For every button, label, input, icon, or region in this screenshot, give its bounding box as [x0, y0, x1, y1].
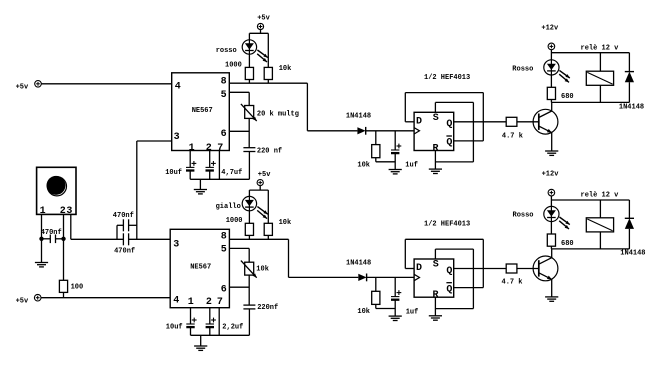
svg-text:100: 100: [71, 283, 84, 291]
resistor 10k (FF2 input): [357, 291, 380, 316]
wire clamp diode bottom (channel 1): [628, 82, 630, 102]
wire +12v to LED Rosso: [550, 50, 552, 60]
+5v power circle (IC1): [35, 81, 42, 88]
svg-text:10k: 10k: [256, 266, 269, 274]
wire IC1 pin 5 to potentiometer: [229, 92, 249, 105]
+12v power circle (channel 1): [548, 43, 555, 50]
wire mic pin 2 to R100: [63, 214, 65, 280]
svg-text:Q: Q: [446, 138, 452, 149]
svg-text:680: 680: [561, 93, 574, 101]
svg-text:10uf: 10uf: [165, 169, 182, 177]
svg-text:1uf: 1uf: [405, 162, 418, 170]
label giallo: [216, 203, 241, 211]
wire 470nf upper left stub: [117, 225, 123, 239]
wire IC2 pin 7 to ground rail: [218, 308, 220, 336]
svg-text:220 nf: 220 nf: [257, 147, 282, 155]
wire R100 to +5v rail: [63, 292, 65, 297]
svg-text:10uf: 10uf: [166, 324, 183, 332]
resistor 4.7 k (Q2 base): [502, 264, 523, 286]
svg-text:Q: Q: [446, 284, 452, 295]
resistor 680 (channel 1): [547, 87, 573, 101]
wire 1uf top lead (FF2): [394, 277, 396, 296]
wire collector node rail (channel 1): [551, 101, 629, 103]
wire R1000 to pin8 rail: [248, 80, 250, 84]
svg-text:rosso: rosso: [216, 47, 237, 55]
svg-text:4: 4: [175, 82, 181, 93]
svg-text:1: 1: [188, 297, 194, 308]
wire base resistor to Q1: [517, 121, 539, 123]
capacitor 470nf (parallel upper): [113, 212, 134, 231]
wire relay bottom stub (channel 2): [599, 232, 601, 249]
ground (IC2): [194, 346, 207, 350]
wire pot to IC1 pin 6 and 220nf: [248, 118, 250, 147]
wire relay top stub (channel 1): [599, 53, 601, 71]
wire +12v top rail (channel 1): [551, 52, 629, 54]
svg-text:1uf: 1uf: [406, 308, 419, 316]
wire FF1 D feedback loop: [405, 93, 483, 141]
wire 1uf bottom lead (FF1): [394, 153, 396, 169]
wire +12v top rail (channel 2): [551, 199, 629, 201]
junction mic pin1/470nf/ground: [39, 237, 43, 241]
wire LED rosso to R 1000: [248, 54, 250, 67]
svg-text:1N4148: 1N4148: [346, 260, 371, 268]
capacitor 470nf (series lower): [114, 233, 135, 255]
svg-text:D: D: [416, 263, 422, 274]
wire IC1 pin 3 input: [137, 141, 172, 239]
wire collector node rail (channel 2): [551, 248, 629, 250]
svg-text:680: 680: [561, 240, 574, 248]
wire FF2 Qbar output: [454, 287, 484, 289]
wire IC1 pin 7 to ground rail: [218, 151, 220, 180]
+5v supply label (bottom rail): [16, 297, 29, 305]
svg-text:1N4148: 1N4148: [620, 250, 645, 258]
LED rosso: [242, 40, 268, 62]
svg-text:470nf: 470nf: [41, 229, 62, 237]
svg-text:Rosso: Rosso: [513, 212, 534, 220]
wire ground stem (IC1): [199, 179, 201, 189]
resistor 680 (channel 2): [547, 234, 573, 248]
svg-text:3: 3: [174, 132, 180, 143]
svg-text:D: D: [416, 117, 422, 128]
wire junction to R10k (FF1): [375, 131, 377, 145]
svg-text:NE567: NE567: [192, 107, 213, 115]
wire relay bottom stub (channel 1): [599, 85, 601, 102]
IC U1 NE567 (top tone decoder): [172, 73, 230, 154]
wire IC2 pin 1 lead: [190, 308, 192, 336]
wire IC2 pin 5 to potentiometer: [229, 248, 249, 262]
+5v supply symbol (IC1 pin 4): [16, 83, 29, 91]
svg-text:10k: 10k: [279, 219, 292, 227]
wire IC2 ground rail: [191, 334, 250, 336]
svg-text:4: 4: [173, 296, 179, 307]
wire LED to R680 (channel 2): [550, 222, 552, 234]
capacitor 10uf (IC1 pin 1): [165, 161, 196, 177]
resistor 4.7 k (Q1 base): [502, 117, 523, 140]
capacitor 2,2uf (IC2 pin 2): [206, 318, 244, 332]
svg-text:S: S: [433, 113, 439, 124]
svg-text:1N4148: 1N4148: [619, 104, 644, 112]
capacitor 1uf (FF1): [391, 144, 418, 170]
diode 1N4148 relay clamp (channel 2): [620, 218, 645, 257]
wire IC1 pin 6: [229, 130, 249, 132]
wire +5v rail to IC2 pin 4: [41, 297, 170, 299]
capacitor 470nf (mic): [41, 229, 62, 243]
wire +5v to IC1 pin 4: [41, 83, 171, 85]
wire mic pin 1: [41, 214, 43, 238]
svg-text:4.7 k: 4.7 k: [502, 278, 523, 286]
svg-text:Q: Q: [446, 266, 452, 277]
wire diode to FF2 clock: [367, 276, 415, 278]
svg-text:4,7uf: 4,7uf: [221, 169, 242, 177]
LED Rosso (channel 2): [544, 206, 570, 229]
wire clamp diode top (channel 2): [628, 200, 630, 218]
flip-flop U2A 1/2 HEF4013: [414, 74, 470, 154]
wire R1000b to pin8 rail: [248, 235, 250, 239]
ground (FF1 input cap): [389, 170, 402, 174]
+12v supply label (channel 2): [542, 171, 560, 179]
svg-text:1000: 1000: [226, 217, 243, 225]
svg-text:8: 8: [221, 76, 227, 87]
+5v power circle (giallo branch): [257, 180, 263, 186]
ground (Q2 emitter): [545, 297, 558, 301]
diode 1N4148 relay clamp (channel 1): [619, 72, 644, 112]
diode 1N4148 (channel 2): [346, 260, 371, 282]
wire +12v to LED Rosso (channel 2): [550, 196, 552, 207]
wire R680 to collector node (channel 2): [550, 246, 552, 249]
resistor 100: [59, 280, 83, 292]
wire mic pin 3 signal: [71, 214, 124, 239]
svg-text:20 k multg: 20 k multg: [257, 110, 299, 118]
wire 1uf bottom lead (FF2): [394, 300, 396, 316]
svg-text:2: 2: [60, 206, 66, 217]
wire IC1 pin 8 output net: [229, 83, 307, 131]
wire diode to FF1 clock: [366, 130, 414, 132]
transistor Q1: [533, 109, 558, 134]
svg-text:3: 3: [173, 239, 179, 250]
wire 220nf to ground rail: [248, 152, 250, 180]
relay rele 12 v (channel 2): [581, 191, 620, 232]
svg-text:1/2 HEF4013: 1/2 HEF4013: [424, 74, 470, 82]
svg-text:+5v: +5v: [257, 15, 270, 23]
svg-text:S: S: [433, 260, 439, 271]
LED Rosso (channel 1): [544, 60, 570, 83]
+5v power circle (rosso branch): [257, 23, 263, 29]
wire FF1 R to ground: [434, 151, 436, 169]
wire R10k bottom to cap ground (FF2): [376, 304, 395, 308]
wire LED to R680 (channel 1): [550, 75, 552, 87]
+12v supply label (channel 1): [541, 25, 559, 33]
wire signal to IC2 pin 3: [129, 238, 171, 240]
svg-text:1000: 1000: [225, 62, 242, 70]
svg-text:NE567: NE567: [190, 264, 211, 272]
svg-text:+5v: +5v: [16, 83, 29, 91]
svg-text:giallo: giallo: [216, 203, 241, 211]
ground (IC1): [194, 190, 207, 194]
svg-text:relè 12 v: relè 12 v: [581, 191, 620, 199]
capacitor 220 nf (IC1): [243, 147, 282, 155]
svg-text:8: 8: [221, 232, 227, 243]
capacitor 10uf (IC2 pin 1): [166, 318, 197, 332]
wire clamp diode bottom (channel 2): [628, 229, 630, 249]
svg-text:2: 2: [206, 297, 212, 308]
+5v supply label (giallo LED branch): [258, 171, 271, 179]
wire R680 to collector node: [550, 100, 552, 103]
resistor 1000 (giallo): [226, 217, 254, 236]
transistor Q2: [533, 256, 558, 281]
wire 470nf upper right lead: [129, 224, 137, 226]
capacitor 4,7uf (IC1 pin 2): [206, 161, 243, 177]
+5v supply label (rosso LED branch): [257, 15, 270, 23]
svg-text:+12v: +12v: [542, 171, 560, 179]
resistor 1000 (rosso): [225, 62, 254, 80]
wire junction to R10k (FF2): [375, 277, 377, 291]
flip-flop U2B 1/2 HEF4013: [414, 221, 470, 302]
wire 470nf left lead: [42, 238, 51, 240]
wire IC1 ground rail: [190, 178, 249, 180]
svg-text:Rosso: Rosso: [512, 65, 533, 73]
wire FF1 S-R tie: [435, 102, 473, 161]
svg-text:7: 7: [217, 297, 223, 308]
potentiometer 20 k multig (IC1): [241, 104, 299, 121]
wire Q2 emitter to ground: [551, 279, 553, 297]
ground (FF2 input cap): [389, 316, 402, 320]
label rosso: [216, 47, 237, 55]
svg-text:+12v: +12v: [541, 25, 559, 33]
wire IC1 pin 2 lead: [209, 151, 211, 180]
wire IC2 pin 8 output net: [229, 239, 288, 277]
label Rosso (channel 2): [513, 212, 534, 220]
wire LED giallo to R 1000: [248, 211, 250, 224]
svg-text:10k: 10k: [279, 65, 292, 73]
svg-text:+5v: +5v: [258, 171, 271, 179]
wire ground stem (IC2): [200, 335, 202, 346]
svg-text:5: 5: [221, 245, 227, 256]
svg-text:Q: Q: [446, 119, 452, 130]
wire relay top stub (channel 2): [599, 200, 601, 218]
label Rosso (channel 1): [512, 65, 533, 73]
junction mic pin2 node: [61, 237, 65, 241]
svg-text:1/2 HEF4013: 1/2 HEF4013: [424, 221, 470, 229]
svg-text:relè 12 v: relè 12 v: [581, 45, 620, 53]
IC U3 NE567 (bottom tone decoder): [170, 229, 229, 308]
svg-text:1: 1: [40, 206, 46, 217]
svg-text:+5v: +5v: [16, 297, 29, 305]
wire FF2 D feedback loop: [405, 239, 483, 287]
svg-text:5: 5: [221, 90, 227, 101]
wire FF2 S-R tie: [435, 249, 473, 309]
diode 1N4148 (channel 1): [346, 113, 371, 135]
wire pot2 to IC2 pin 6 and 220nf: [248, 275, 250, 305]
svg-text:470nf: 470nf: [114, 247, 135, 255]
LED giallo: [242, 196, 268, 218]
svg-text:4.7 k: 4.7 k: [502, 132, 523, 140]
wire FF2 R to ground: [434, 297, 436, 315]
wire FF2 Q to base resistor: [454, 268, 507, 270]
svg-text:220nf: 220nf: [257, 304, 278, 312]
capacitor 220nf (IC2): [243, 304, 278, 312]
wire Q1 collector: [551, 102, 553, 111]
wire Q2 collector: [551, 249, 553, 258]
wire 220nfb to ground rail: [248, 309, 250, 335]
wire IC2 pin 6: [229, 286, 249, 288]
wire base resistor to Q2: [517, 268, 539, 270]
svg-text:470nf: 470nf: [113, 212, 134, 220]
wire IC2 output to diode: [289, 276, 359, 278]
relay rele 12 v (channel 1): [581, 45, 620, 86]
wire R10k to pin8 rail: [267, 80, 269, 84]
ground (FF2 R): [429, 316, 442, 320]
wire rosso branch split: [249, 30, 268, 68]
ground (Q1 emitter): [545, 151, 558, 155]
svg-text:2,2uf: 2,2uf: [222, 324, 243, 332]
resistor 10k (rosso branch): [264, 65, 291, 80]
capacitor 1uf (FF2): [391, 290, 418, 316]
wire FF1 Q to base resistor: [454, 121, 507, 123]
wire FF1 Qbar output: [454, 140, 484, 142]
wire IC1 pin 1 lead: [189, 151, 191, 180]
ground (mic): [35, 263, 48, 267]
resistor 10k (FF1 input): [357, 145, 380, 170]
wire Q1 emitter to ground: [551, 133, 553, 151]
svg-text:6: 6: [221, 285, 227, 296]
wire clamp diode top (channel 1): [628, 53, 630, 72]
svg-text:10k: 10k: [357, 161, 370, 169]
svg-text:6: 6: [221, 129, 227, 140]
microphone connector J1: [37, 167, 76, 217]
svg-text:7: 7: [217, 143, 223, 154]
svg-text:1N4148: 1N4148: [346, 113, 371, 121]
svg-text:1: 1: [189, 143, 195, 154]
ground (FF1 R): [429, 169, 442, 173]
wire giallo branch split: [249, 186, 268, 224]
potentiometer 10k (IC2): [241, 261, 269, 278]
wire IC1 output to diode: [307, 130, 357, 132]
wire R10k bottom to cap ground: [376, 158, 395, 162]
wire IC2 pin 2 lead: [209, 308, 211, 336]
+12v power circle (channel 2): [548, 189, 555, 196]
+5v power circle (bottom rail): [34, 294, 41, 301]
wire R10kb to pin8 rail: [267, 235, 269, 239]
resistor 10k (giallo branch): [264, 219, 291, 236]
wire ground stem (mic): [41, 239, 43, 262]
svg-text:3: 3: [66, 206, 72, 217]
wire 470nf right lead: [56, 238, 64, 240]
svg-text:10k: 10k: [357, 308, 370, 316]
svg-text:2: 2: [206, 143, 212, 154]
wire 1uf top lead (FF1): [394, 131, 396, 150]
